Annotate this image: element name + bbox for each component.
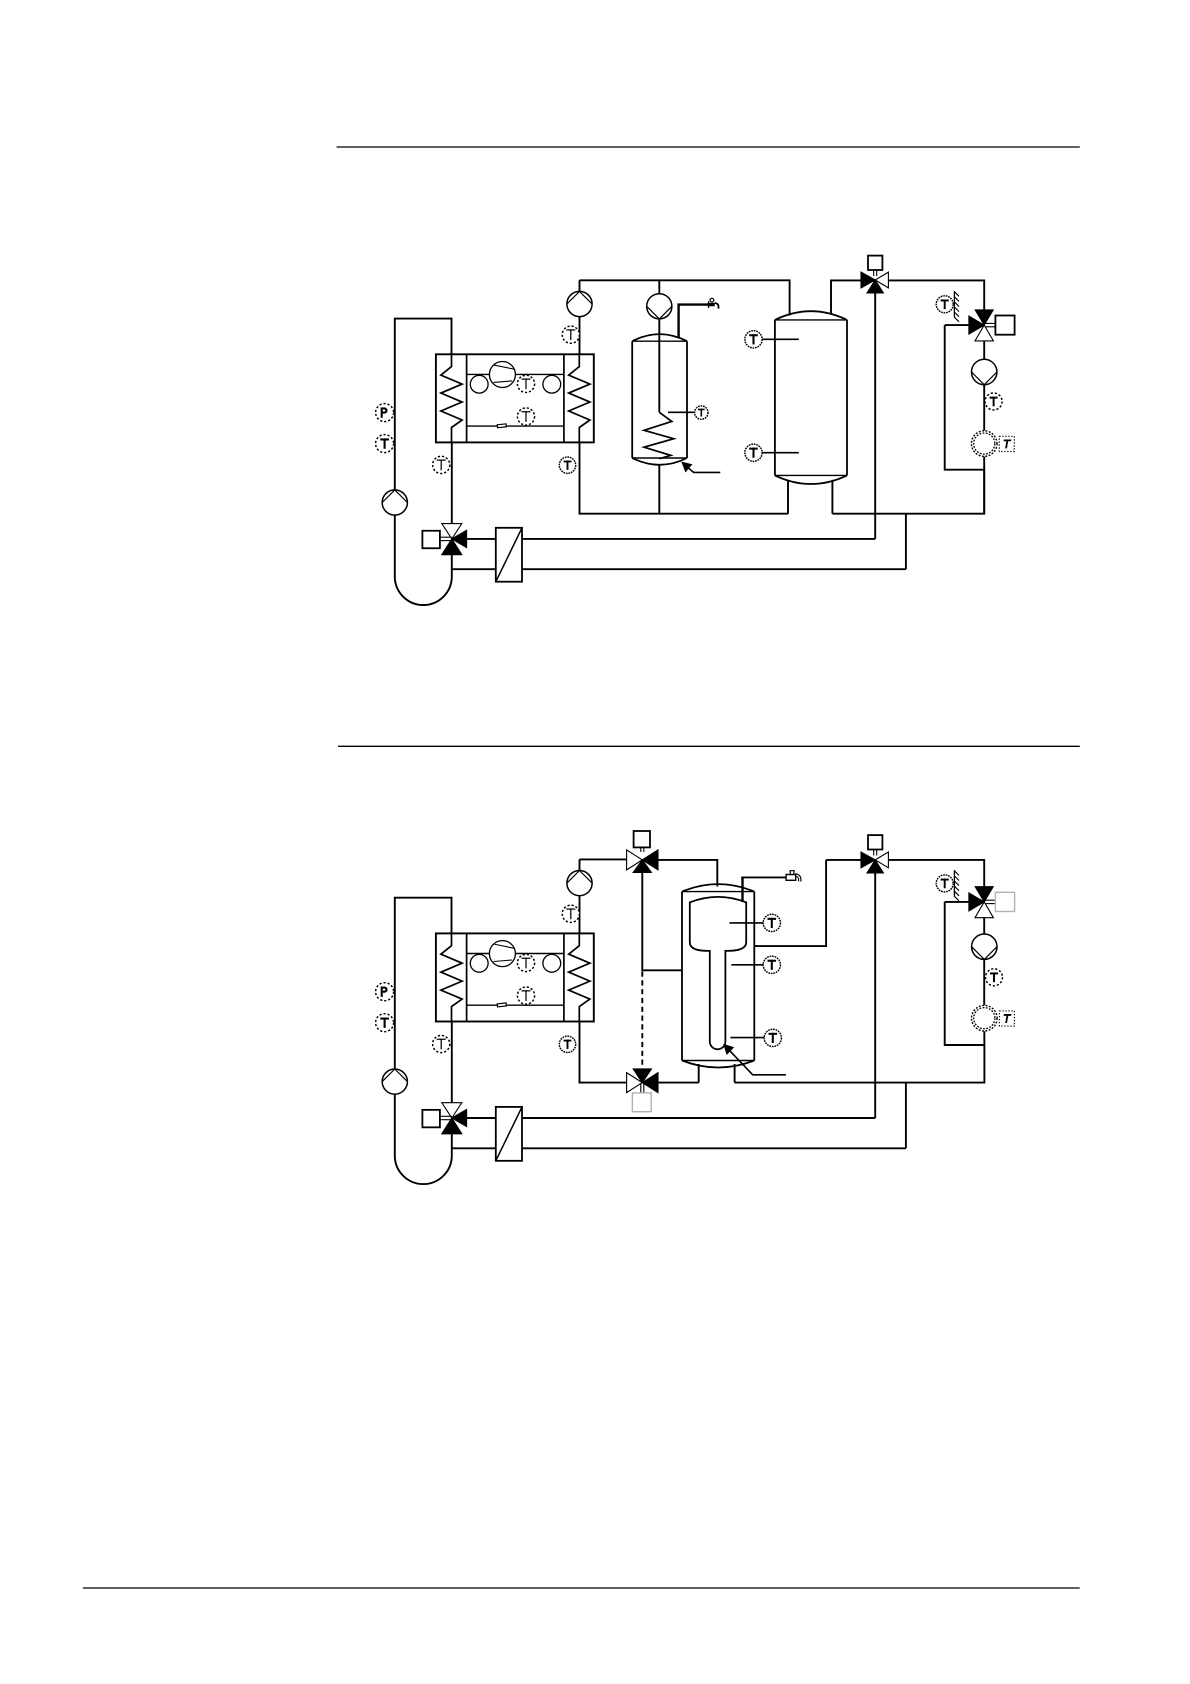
particle filter d1 (496, 528, 522, 582)
3-way diverting valve d2 (861, 852, 888, 873)
wire: condenser riser d1 (579, 280, 581, 354)
cold water inlet arrow d1 (682, 462, 720, 472)
wire: valve1 bottom supply drop d1 (874, 293, 876, 539)
sensor T dhw top d2 (729, 914, 780, 931)
expansion valve d1 (497, 424, 506, 428)
sensor T buffer top d1 (745, 331, 799, 348)
sensor T dhw middle d2 (731, 956, 780, 973)
wire: bypass dashed link d2 (641, 972, 643, 1069)
wire: tank right leg to radiator loop d2 (735, 1045, 985, 1083)
heating coil in DHW tank d1 (644, 412, 674, 458)
wire: return drop to filter line d1 (905, 514, 907, 570)
room sensor label d2 (999, 1011, 1014, 1026)
wire: valve1 right port line d1 (889, 280, 985, 310)
wire: valve1 left port d2 (826, 859, 862, 861)
heating circuit pump d2 (567, 871, 592, 896)
3-way mixing valve d1 (969, 310, 994, 341)
DHW tank-in-tank outer shell d2 (682, 884, 754, 1067)
sensor T supply (dashed) d1 (562, 326, 579, 343)
wire: radiator circuit pipe d1 (983, 341, 985, 514)
mixing valve actuator d2 (986, 892, 1015, 911)
sensor T supply (dashed) d2 (562, 905, 579, 922)
outdoor temperature sensor d1 (936, 291, 959, 322)
wire: tank legs d2 (699, 1064, 735, 1083)
condenser coil d2 (569, 933, 590, 1021)
3-way mixing valve d2 (969, 887, 994, 918)
wire: return line right segment d1 (832, 470, 984, 514)
page footer rule (83, 1587, 1080, 1589)
wire: valve4 to tank left leg d2 (658, 1082, 699, 1084)
heat pump unit box d1 (436, 354, 594, 442)
radiator circuit pump d1 (972, 359, 997, 384)
mixing valve actuator d1 (986, 316, 1015, 335)
wire: heating return riser d1 (945, 325, 985, 470)
radiator d2 (972, 1005, 998, 1031)
brine pump d1 (382, 490, 407, 515)
internal pump left d1 (470, 375, 488, 393)
wire: tap water line d1 (677, 305, 707, 338)
buffer tank d1 (775, 311, 847, 484)
pressure sensor P d1 (376, 404, 394, 422)
wire: valve1 right port line d2 (889, 860, 985, 887)
wire: tap water line d2 (741, 877, 786, 902)
sensor T brine in (dashed) d1 (433, 456, 450, 473)
internal pump right d1 (543, 375, 561, 393)
temperature sensor T brine d2 (376, 1014, 394, 1032)
section rule middle (338, 745, 1080, 747)
internal sensor T hot gas d1 (517, 375, 534, 392)
wire: DHW tank bottom outlet d1 (658, 465, 660, 514)
temperature sensor T brine d1 (376, 435, 394, 453)
sensor T brine in (dashed) d2 (433, 1035, 450, 1052)
shunt valve actuator d1 (422, 531, 451, 549)
sensor T supply dashed d2 (986, 969, 1003, 986)
particle filter d2 (496, 1107, 522, 1161)
compressor d1 (489, 362, 515, 388)
wire: ground-loop U pipe d2 (395, 898, 452, 1184)
wire: mixing valve left port d2 (945, 901, 969, 903)
tap faucet d2 (786, 871, 800, 882)
compressor d2 (489, 941, 515, 967)
cold water inlet arrow d2 (724, 1045, 786, 1075)
expansion valve d2 (497, 1003, 506, 1007)
section rule top (337, 146, 1080, 148)
DHW valve actuator d2 (634, 831, 650, 852)
wire: condenser return to valve4 d2 (580, 1022, 627, 1083)
sensor T buffer bottom d1 (745, 444, 799, 461)
heat pump unit box d2 (436, 933, 594, 1021)
wire: return drop to filter line d2 (905, 1083, 907, 1149)
wire: DHW valve bottom to tank side d2 (642, 872, 682, 971)
wire: supply line to heat pump d2 (467, 1117, 876, 1119)
sensor T heating return d2 (559, 1036, 575, 1052)
wire: DHW valve to tank top d2 (658, 860, 717, 887)
wire: evaporator outlet pipe d2 (451, 1022, 453, 1104)
pressure sensor P d2 (376, 983, 394, 1001)
wire: supply line to heat pump d1 (467, 538, 876, 540)
electric DHW tank d1 (632, 334, 687, 465)
DHW inner tank d2 (690, 897, 746, 1049)
condenser coil d1 (569, 354, 590, 442)
3-way DHW diverting valve d2 (627, 850, 658, 873)
wire: evaporator outlet pipe d1 (451, 442, 453, 524)
internal pump right d2 (543, 954, 561, 972)
radiator circuit pump d2 (972, 934, 997, 959)
diverting valve actuator d2 (868, 835, 882, 855)
wire: valve1 left port to buffer tank d1 (831, 280, 862, 314)
heating circuit pump d1 (567, 291, 592, 316)
diverting valve actuator d1 (868, 256, 882, 276)
outdoor temperature sensor d2 (936, 870, 959, 901)
wire: return line from system d1 (452, 568, 906, 570)
wire: radiator circuit pipe d2 (983, 917, 985, 1045)
tap faucet d1 (708, 298, 719, 308)
radiator d1 (971, 431, 997, 457)
sensor T dhw bottom d2 (730, 1029, 781, 1046)
sensor T supply dashed d1 (985, 393, 1002, 410)
shunt valve actuator d2 (422, 1110, 451, 1128)
wire: return line left segment d1 (580, 442, 789, 513)
sensor T DHW tank d1 (668, 406, 708, 419)
internal sensor T liquid d2 (517, 987, 534, 1004)
internal sensor T liquid d1 (517, 408, 534, 425)
wire: tank to valve1 right loop d2 (754, 860, 826, 946)
wire: condenser riser d2 (579, 859, 581, 933)
3-way shunt valve d2 (442, 1103, 467, 1134)
room sensor label d1 (999, 436, 1014, 451)
wire: heat pump supply top line d1 (580, 280, 790, 315)
wire: buffer tank legs d1 (788, 480, 832, 514)
wire: branch to DHW pump d1 (658, 280, 660, 412)
brine pump d2 (382, 1069, 407, 1094)
return valve actuator d2 (632, 1084, 651, 1112)
internal sensor T hot gas d2 (517, 954, 534, 971)
DHW charge pump d1 (647, 294, 672, 319)
wire: condenser to dhw valve line d2 (580, 858, 627, 860)
3-way shunt valve d1 (442, 524, 467, 555)
wire: heating return riser d2 (945, 902, 985, 1045)
3-way diverting valve d1 (861, 272, 888, 293)
evaporator coil d1 (441, 354, 462, 442)
wire: valve1 bottom supply drop d2 (874, 873, 876, 1119)
wire: mixing valve left port d1 (945, 324, 969, 326)
wire: ground-loop U pipe d1 (395, 319, 452, 605)
3-way return valve d2 (627, 1069, 658, 1093)
evaporator coil d2 (441, 933, 462, 1021)
wire: return line from system d2 (452, 1147, 906, 1149)
sensor T heating return d1 (559, 457, 575, 473)
internal pump left d2 (470, 954, 488, 972)
